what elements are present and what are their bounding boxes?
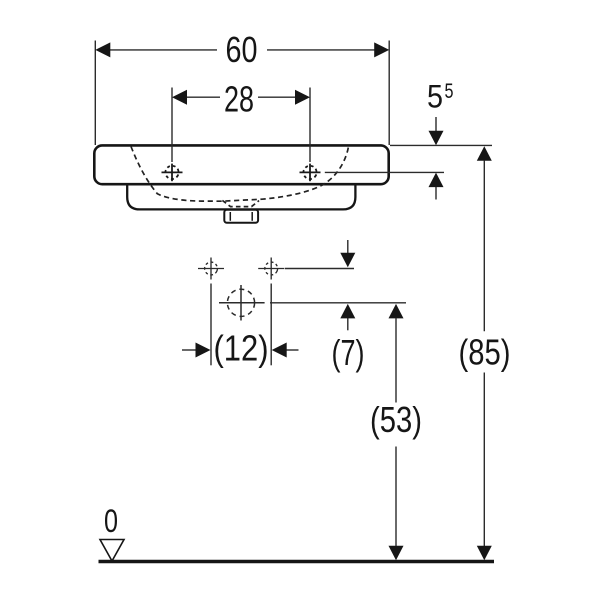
svg-text:0: 0 <box>104 503 118 539</box>
dimension (85) <box>459 146 511 560</box>
reference line basin top edge extension <box>390 144 492 146</box>
svg-text:60: 60 <box>226 29 258 70</box>
svg-text:(12): (12) <box>214 328 269 369</box>
bowl inner rim dashed curve <box>131 147 349 202</box>
dimension 60 <box>95 29 389 145</box>
siphon outlet circle (dashed) <box>219 285 265 321</box>
svg-text:5: 5 <box>427 79 443 115</box>
svg-text:5: 5 <box>445 80 454 103</box>
svg-text:28: 28 <box>224 79 254 120</box>
svg-text:(85): (85) <box>459 332 511 373</box>
dimension 5.5 (basin top to faucet axis) <box>427 79 454 200</box>
reference line faucet hole axis <box>325 171 444 173</box>
svg-text:(53): (53) <box>370 399 422 440</box>
dimension (12) <box>182 284 299 369</box>
washbasin lower bowl outline <box>127 184 355 210</box>
datum level 0 symbol <box>100 503 124 561</box>
dimension (53) <box>370 304 422 560</box>
floor line <box>99 560 495 564</box>
reference line fixing hole axis <box>285 268 354 270</box>
svg-text:(7): (7) <box>332 332 365 373</box>
wall fixing hole right (dashed) <box>258 258 284 280</box>
faucet hole left <box>162 164 183 182</box>
drain recess dashed <box>222 200 259 206</box>
wall fixing hole left (dashed) <box>198 258 224 280</box>
reference line siphon axis <box>270 302 406 304</box>
washbasin top outline <box>94 145 388 184</box>
dimension (7) <box>332 240 365 373</box>
dimension 28 <box>172 79 310 163</box>
drain outlet box <box>224 210 258 223</box>
faucet hole right <box>300 164 321 182</box>
